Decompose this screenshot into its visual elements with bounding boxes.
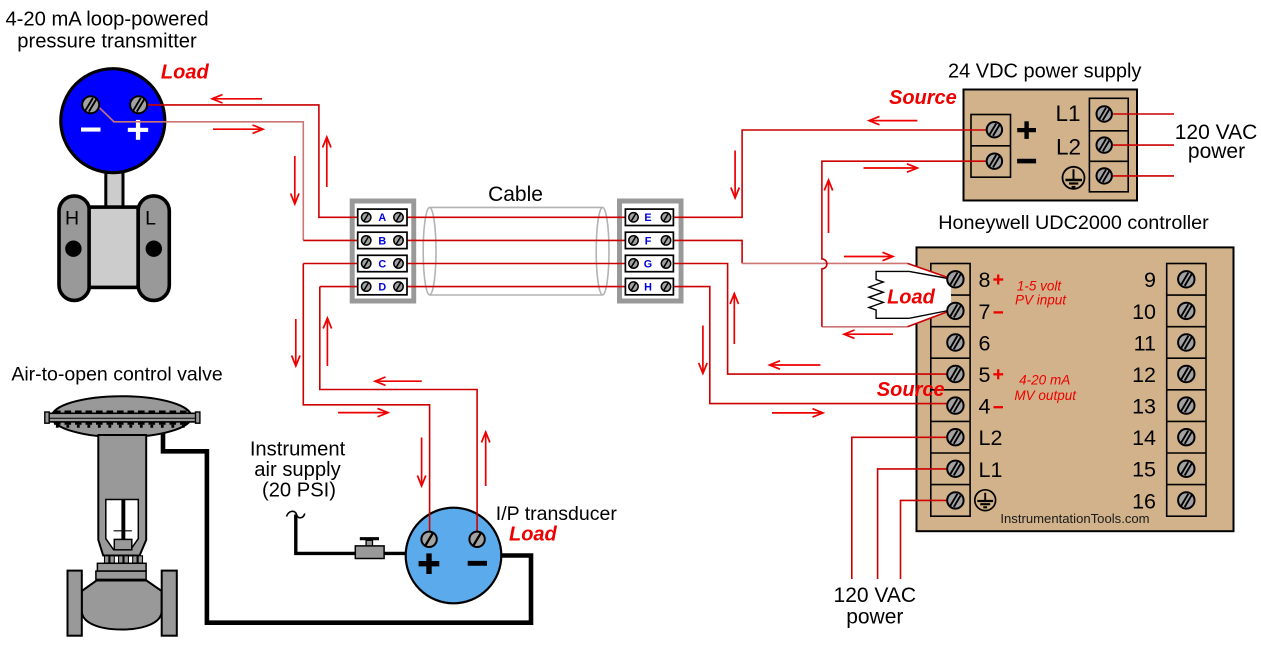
I/P + screw bbox=[421, 532, 436, 547]
svg-text:8: 8 bbox=[979, 268, 991, 292]
wire: terminal H to controller terminal 4 bbox=[664, 287, 950, 404]
svg-text:air supply: air supply bbox=[254, 459, 341, 481]
arrow left above I/P return wire bbox=[375, 377, 422, 385]
wire: power supply L1 to 120 VAC bbox=[1106, 113, 1174, 115]
svg-text:D: D bbox=[378, 282, 386, 294]
wire: transmitter - to terminal B bbox=[98, 106, 303, 240]
valve yoke bbox=[98, 435, 146, 556]
I/P transducer circle bbox=[406, 508, 502, 604]
air supply hand valve bbox=[366, 540, 372, 546]
svg-text:4-20 mA loop-powered: 4-20 mA loop-powered bbox=[5, 8, 208, 30]
valve stem window bbox=[106, 500, 139, 550]
valve body bbox=[82, 581, 162, 630]
svg-text:4: 4 bbox=[979, 395, 991, 419]
terminal row B bbox=[358, 232, 407, 248]
wire: controller L1 to 120 VAC bbox=[878, 469, 952, 579]
load resistor R (zigzag) and leads bbox=[869, 271, 909, 318]
arrow down on wire to E bbox=[731, 151, 739, 199]
red minus at terminal 4 bbox=[994, 406, 1004, 408]
valve bonnet plates bbox=[97, 563, 146, 571]
svg-text:12: 12 bbox=[1132, 363, 1156, 387]
valve stem block bbox=[114, 539, 132, 549]
svg-text:F: F bbox=[645, 235, 652, 247]
svg-text:Cable: Cable bbox=[488, 183, 543, 206]
wire: transmitter + to terminal A bbox=[139, 105, 367, 217]
terminal row H bbox=[625, 278, 673, 294]
controller terminal screw 12 (right) bbox=[1178, 366, 1194, 382]
valve left flange bbox=[68, 571, 82, 636]
I/P minus sign bbox=[468, 561, 487, 566]
arrow up beside wire A vertical bbox=[323, 137, 331, 187]
svg-text:MV output: MV output bbox=[1014, 388, 1077, 403]
wire: terminal F down to controller level bbox=[664, 240, 742, 263]
wire: controller terminal 5 to terminal G bbox=[664, 264, 950, 375]
arrow left above transmitter + wire bbox=[212, 95, 262, 103]
svg-text:L: L bbox=[145, 208, 156, 230]
wire: I/P - to terminal D bbox=[320, 287, 477, 536]
svg-text:24 VDC power supply: 24 VDC power supply bbox=[948, 61, 1141, 83]
red plus at terminal 5 bbox=[993, 369, 1003, 379]
svg-text:6: 6 bbox=[979, 331, 991, 355]
red minus at terminal 7 bbox=[994, 311, 1004, 313]
svg-text:9: 9 bbox=[1144, 268, 1156, 292]
valve right flange bbox=[162, 571, 177, 636]
valve diaphragm flange band bbox=[47, 413, 197, 422]
instrument air supply pipe bbox=[296, 515, 406, 554]
wire: controller terminal 7 return (light) bbox=[822, 326, 908, 328]
power supply ground symbol bbox=[1063, 167, 1085, 189]
power supply L1 screw bbox=[1097, 106, 1112, 121]
arrow down into I/P + bbox=[417, 438, 425, 487]
controller terminal screw 9 (right) bbox=[1178, 271, 1194, 287]
H port dot bbox=[65, 241, 81, 257]
arrow right on wire to terminal 8 bbox=[844, 252, 893, 260]
I/P - screw bbox=[469, 532, 484, 547]
left terminal block frame bbox=[350, 199, 417, 304]
right terminal block frame bbox=[617, 199, 684, 304]
wire diagonal to terminal 8 bbox=[908, 263, 952, 278]
controller terminal screw 16 (right) bbox=[1178, 492, 1194, 508]
controller ground symbol bbox=[975, 490, 996, 511]
controller left terminal column bbox=[931, 264, 970, 517]
svg-text:Source: Source bbox=[877, 379, 945, 401]
power supply ground screw bbox=[1097, 168, 1112, 183]
wire: terminal E to power supply + bbox=[664, 130, 991, 217]
svg-text:I/P transducer: I/P transducer bbox=[496, 503, 618, 525]
svg-text:Air-to-open control valve: Air-to-open control valve bbox=[11, 364, 222, 386]
cable cylinder bbox=[430, 206, 603, 208]
svg-text:pressure transmitter: pressure transmitter bbox=[17, 30, 197, 52]
terminal row F bbox=[625, 232, 673, 248]
terminal row D bbox=[358, 278, 407, 294]
valve actuator dome bbox=[52, 396, 192, 437]
svg-text:15: 15 bbox=[1132, 458, 1156, 482]
valve flange bolt heads above bbox=[54, 410, 190, 413]
transmitter minus sign bbox=[81, 128, 101, 132]
power supply - sign bbox=[1017, 159, 1036, 164]
svg-text:InstrumentationTools.com: InstrumentationTools.com bbox=[1000, 511, 1149, 526]
arrow right below wire C horizontal bbox=[338, 408, 388, 416]
transmitter minus terminal screw bbox=[82, 96, 99, 113]
wire: terminal C to I/P + bbox=[303, 264, 429, 537]
power supply AC terminal block bbox=[1089, 98, 1128, 192]
arrow right on terminal 4 wire bbox=[772, 409, 823, 417]
svg-text:power: power bbox=[1188, 140, 1245, 163]
controller terminal screw 5 (left) bbox=[947, 366, 963, 382]
controller terminal screw L2 (left) bbox=[947, 429, 963, 445]
wire: terminal A to terminal E (through cable) bbox=[367, 216, 664, 218]
wire: power supply ground to 120 VAC bbox=[1106, 175, 1174, 177]
transmitter manifold center block bbox=[89, 207, 138, 287]
controller terminal screw gnd (left) bbox=[947, 492, 963, 508]
power supply + sign bbox=[1017, 128, 1036, 132]
valve bonnet bolts bbox=[105, 556, 109, 563]
Honeywell UDC2000 controller box bbox=[917, 247, 1234, 531]
arrow up on return vertical bbox=[824, 180, 832, 233]
controller right terminal column bbox=[1167, 264, 1206, 517]
controller terminal screw 8 (left) bbox=[947, 271, 963, 287]
svg-text:4-20 mA: 4-20 mA bbox=[1019, 373, 1070, 388]
svg-text:H: H bbox=[65, 208, 79, 230]
controller terminal screw L1 (left) bbox=[947, 461, 963, 477]
transmitter plus sign bbox=[128, 128, 148, 132]
arrow left on power supply + wire bbox=[869, 116, 917, 124]
pneumatic signal pipe valve to I/P bbox=[163, 433, 531, 623]
24 VDC power supply box bbox=[964, 90, 1138, 201]
wire: F run to controller terminal 8 (light) bbox=[742, 262, 907, 264]
wire: controller ground to 120 VAC bbox=[901, 500, 953, 579]
svg-text:13: 13 bbox=[1132, 395, 1156, 419]
arrow up on wire to G bbox=[730, 294, 738, 345]
power supply DC terminal block bbox=[971, 115, 1011, 178]
svg-text:L2: L2 bbox=[1056, 134, 1081, 159]
wire: power supply L2 to 120 VAC bbox=[1106, 144, 1174, 146]
svg-text:120 VAC: 120 VAC bbox=[834, 584, 917, 607]
wire: controller L2 to 120 VAC bbox=[852, 437, 952, 579]
terminal row G bbox=[625, 255, 673, 271]
terminal row A bbox=[358, 209, 407, 225]
power supply L2 screw bbox=[1097, 137, 1112, 152]
arrow right below transmitter - wire bbox=[213, 125, 263, 133]
svg-text:L1: L1 bbox=[979, 458, 1003, 482]
svg-text:PV input: PV input bbox=[1015, 293, 1067, 308]
wire diagonal from terminal 7 bbox=[908, 310, 952, 326]
svg-text:power: power bbox=[846, 605, 903, 628]
power supply + screw bbox=[987, 122, 1002, 137]
valve stem bbox=[121, 500, 125, 540]
terminal row C bbox=[358, 255, 407, 271]
load resistor white backing bbox=[876, 263, 951, 326]
arrow up from I/P - bbox=[482, 432, 490, 486]
svg-text:L1: L1 bbox=[1055, 101, 1080, 126]
svg-text:B: B bbox=[378, 235, 386, 247]
svg-text:5: 5 bbox=[979, 363, 991, 387]
wire: terminal D to terminal H (through cable) bbox=[320, 286, 664, 288]
L port dot bbox=[146, 241, 162, 257]
svg-text:L2: L2 bbox=[979, 426, 1003, 450]
svg-text:1-5 volt: 1-5 volt bbox=[1017, 279, 1063, 294]
valve flange bolts below bbox=[54, 422, 190, 425]
svg-text:Load: Load bbox=[887, 287, 936, 309]
controller terminal screw 6 (left) bbox=[947, 334, 963, 350]
power supply - screw bbox=[987, 154, 1002, 169]
svg-text:Honeywell UDC2000 controller: Honeywell UDC2000 controller bbox=[938, 212, 1209, 234]
arrow down on wire from H bbox=[699, 326, 707, 374]
controller terminal screw 7 (left) bbox=[947, 303, 963, 319]
controller terminal screw 14 (right) bbox=[1178, 429, 1194, 445]
svg-text:A: A bbox=[378, 212, 386, 224]
arrow up beside wire D vertical bbox=[323, 318, 331, 366]
svg-text:G: G bbox=[644, 258, 652, 270]
transmitter manifold left capsule H bbox=[59, 196, 90, 301]
svg-text:7: 7 bbox=[979, 300, 991, 324]
transmitter manifold right capsule L bbox=[138, 196, 169, 301]
svg-text:Load: Load bbox=[509, 523, 558, 545]
svg-text:E: E bbox=[644, 212, 651, 224]
red plus at terminal 8 bbox=[993, 275, 1003, 285]
controller terminal screw 15 (right) bbox=[1178, 461, 1194, 477]
svg-text:C: C bbox=[378, 258, 386, 270]
arrow right on power supply - wire bbox=[864, 164, 918, 172]
arrow down beside wire C vertical bbox=[292, 319, 300, 366]
svg-text:10: 10 bbox=[1132, 300, 1156, 324]
wire: return vertical with hop to power supply - bbox=[822, 161, 991, 327]
terminal row E bbox=[625, 209, 673, 225]
arrow left on terminal 5 wire bbox=[770, 361, 821, 369]
I/P plus sign bbox=[419, 561, 440, 566]
svg-text:11: 11 bbox=[1134, 331, 1156, 355]
svg-text:Instrument: Instrument bbox=[250, 439, 346, 461]
svg-text:16: 16 bbox=[1132, 489, 1156, 513]
svg-text:(20 PSI): (20 PSI) bbox=[262, 480, 336, 502]
controller terminal screw 13 (right) bbox=[1178, 397, 1194, 413]
svg-text:Source: Source bbox=[889, 87, 957, 109]
arrow down beside wire B vertical bbox=[291, 156, 299, 204]
transmitter stem bbox=[106, 170, 123, 208]
svg-text:14: 14 bbox=[1132, 426, 1156, 450]
wire: terminal C to terminal G (through cable) bbox=[303, 263, 664, 265]
transmitter body circle bbox=[61, 69, 165, 173]
svg-text:H: H bbox=[644, 282, 652, 294]
arrow left on terminal 7 return bbox=[844, 330, 893, 338]
wire: terminal B to terminal F (through cable) bbox=[303, 239, 664, 241]
controller terminal screw 4 (left) bbox=[947, 397, 963, 413]
controller terminal screw 10 (right) bbox=[1178, 303, 1194, 319]
air supply break squiggle bbox=[287, 511, 305, 517]
controller terminal screw 11 (right) bbox=[1178, 334, 1194, 350]
transmitter plus terminal screw bbox=[130, 96, 147, 113]
svg-text:Load: Load bbox=[161, 62, 210, 84]
